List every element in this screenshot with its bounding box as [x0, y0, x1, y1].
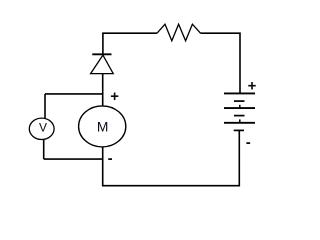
svg-text:M: M [97, 120, 109, 135]
svg-text:-: - [108, 150, 113, 167]
diode D1 cathode bar [92, 53, 111, 55]
battery B1 plate 1 long (+) [224, 92, 255, 94]
diode D1 anode triangle [91, 55, 114, 74]
resistor R1 zigzag [157, 24, 201, 41]
motor M1 body circle [79, 106, 126, 147]
svg-text:-: - [246, 134, 251, 151]
wire: bottom rail [103, 185, 240, 187]
wire: top rail left segment (diode top to resistor) [103, 33, 157, 54]
battery B1 plate 5 long [224, 122, 255, 124]
wire: battery - terminal down to bottom rail [238, 130, 240, 186]
wire: diode anode to motor + terminal [102, 74, 104, 106]
wire: top rail right segment (resistor to right corner) and right vertical down to battery + [201, 33, 241, 93]
svg-text:V: V [39, 121, 47, 135]
wire: motor - terminal down to bottom rail [102, 147, 104, 186]
svg-text:+: + [110, 88, 119, 105]
wire: voltmeter top branch horizontal [45, 93, 103, 95]
battery B1 plate 2 short [234, 100, 245, 102]
wire: voltmeter bottom vertical [43, 140, 45, 159]
wire: voltmeter top branch vertical [44, 94, 46, 118]
battery B1 plate 4 short [234, 115, 245, 117]
voltmeter V1 body circle [29, 118, 54, 139]
battery B1 cell2 tick [239, 105, 241, 108]
battery B1 plate 3 long [224, 107, 255, 109]
battery B1 cell3 tick [239, 119, 241, 122]
svg-text:+: + [248, 77, 257, 94]
wire: voltmeter bottom horizontal to motor branch [44, 158, 103, 160]
battery B1 plate 6 short (-) [234, 129, 244, 131]
